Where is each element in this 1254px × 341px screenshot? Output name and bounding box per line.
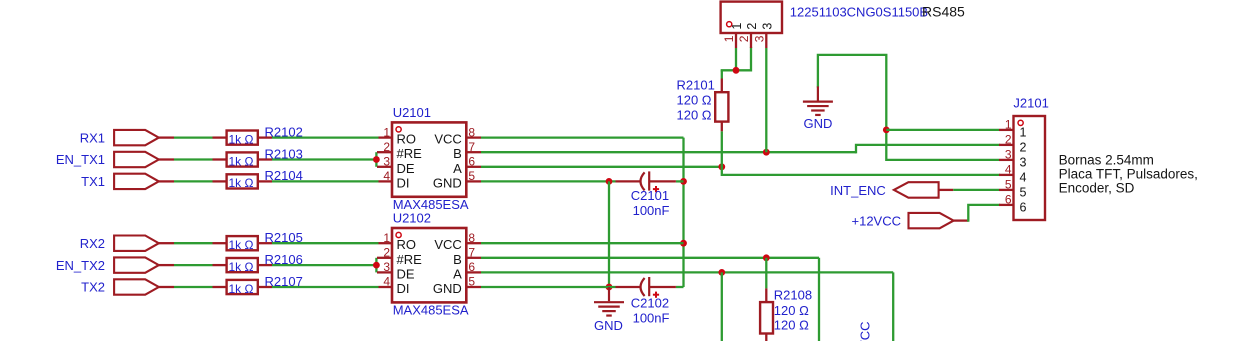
value label 100nF of C2102 [633,311,670,326]
wire B U2101 pin7 [481,151,856,153]
U2101 pin numbers [383,125,475,183]
net label EN_TX1 [56,152,105,167]
net label GND top [804,116,833,131]
designator label C2102 [631,296,669,311]
svg-text:R2102: R2102 [265,124,303,139]
wire A2 U2102 pin6 [481,271,893,273]
port flag EN_TX2 [114,257,174,272]
svg-text:2: 2 [745,23,759,30]
svg-text:7: 7 [468,246,475,260]
J2101 pin numbers 1-6 [1005,118,1012,207]
connector J2101 body [1014,116,1046,220]
ground symbol top [803,86,833,115]
resistor R2107 [213,280,273,294]
svg-text:2: 2 [1005,133,1012,147]
svg-text:3: 3 [1005,148,1012,162]
wire GND U2101 pin5 [481,180,616,182]
designator label R2103 [265,146,303,161]
wire connector pin3 down to B [765,48,767,152]
wire #RE-DE tie bracket U2101 [376,152,392,167]
net label RX1 [80,130,105,145]
junction VCC at C2101 [680,178,687,185]
wire EN_TX2 flag to resistor [174,264,213,266]
wire GND U2102 pin5 [481,286,616,288]
junction B2 at R2108 [763,254,770,261]
wire VCC U2102 pin8 [481,242,684,244]
svg-text:R2107: R2107 [265,274,303,289]
wire B2 drop down [818,258,820,341]
capacitor C2102 polarized [616,277,676,298]
svg-text:EN_TX2: EN_TX2 [56,258,105,273]
net label +12VCC [852,214,902,229]
svg-text:GND: GND [594,318,623,333]
resistor R2103 [213,152,273,166]
svg-text:GND: GND [804,116,833,131]
net label EN_TX2 [56,258,105,273]
junction GND at C2101 left [606,178,613,185]
connector 12251103CNG0S1150B body [721,2,782,33]
svg-text:R2101: R2101 [677,77,715,92]
junction GND at C2102 left [606,284,613,291]
svg-text:DI: DI [397,281,410,296]
svg-text:R2105: R2105 [265,230,303,245]
svg-text:B: B [453,252,462,267]
wire GND net top [818,55,886,160]
wire A2 branch drop [721,272,723,341]
value label 1k for R2107 [229,282,254,296]
svg-text:+12VCC: +12VCC [852,214,902,229]
wire A U2101 pin6 [481,166,722,168]
svg-text:DE: DE [397,266,415,281]
svg-text:5: 5 [468,169,475,183]
svg-text:#RE: #RE [397,252,423,267]
svg-text:VCC: VCC [434,132,461,147]
svg-text:120 Ω: 120 Ω [677,92,712,107]
svg-text:1k Ω: 1k Ω [229,176,254,190]
net label TX1 [81,174,105,189]
svg-text:3: 3 [761,23,775,30]
wire TX1 flag to resistor [174,180,213,182]
designator label U2101 [393,105,431,120]
port flag TX2 [114,279,174,294]
svg-text:6: 6 [468,260,475,274]
junction VCC at U2102 pin8 [680,240,687,247]
wire GND vertical C2101 to C2102 [608,181,610,287]
wire C2101 right to VCC vertical [676,180,684,182]
resistor R2105 [213,236,273,250]
svg-text:1k Ω: 1k Ω [229,132,254,146]
junction EN_TX2 at bracket [373,262,380,269]
designator label R2105 [265,230,303,245]
svg-text:1: 1 [730,23,744,30]
wire EN_TX2 resistor to U2102 pin [272,264,376,266]
connector pin names 1 2 3 [730,23,774,30]
ground symbol bottom [594,287,624,316]
designator label J2101 [1013,96,1048,111]
port flag INT_ENC [894,182,953,198]
svg-text:2: 2 [383,246,390,260]
junction A2 branch [718,269,725,276]
junction EN_TX1 at bracket [373,156,380,163]
svg-text:Encoder, SD: Encoder, SD [1059,181,1135,196]
value label 1k for R2106 [229,260,254,274]
junction B at connector pin3 [763,149,770,156]
svg-text:GND: GND [433,175,462,190]
svg-text:C2102: C2102 [631,296,669,311]
wire B step up to J2101 pin2 [856,145,999,152]
value label 1k for R2103 [229,154,254,168]
svg-text:120 Ω: 120 Ω [774,303,809,318]
U2101 pin stubs [379,138,482,182]
svg-text:120 Ω: 120 Ω [677,108,712,123]
junction A at R2101 [718,163,725,170]
resistor R2102 [213,131,273,145]
wire TX2 flag to resistor [174,286,213,288]
svg-text:INT_ENC: INT_ENC [830,183,886,198]
svg-text:6: 6 [468,155,475,169]
wire A down to J2101 pin4 [722,167,999,175]
wire C2102 right to VCC vertical [676,286,684,288]
svg-text:1k Ω: 1k Ω [229,238,254,252]
svg-text:6: 6 [1020,200,1027,214]
label RS485 [922,3,965,19]
wire EN_TX1 resistor to U2101 pin [272,158,376,160]
svg-text:120 Ω: 120 Ω [774,317,809,332]
port flag TX1 [114,174,174,189]
port flag EN_TX1 [114,152,174,167]
svg-text:R2103: R2103 [265,146,303,161]
svg-text:TX1: TX1 [81,174,105,189]
svg-text:1k Ω: 1k Ω [229,260,254,274]
part label MAX485ESA of U2101 [393,197,469,212]
junction GND at J2101 pin1 branch [883,126,890,133]
svg-text:MAX485ESA: MAX485ESA [393,303,469,318]
wire RX2 resistor to U2102 pin [272,242,379,244]
value label 1k for R2102 [229,132,254,146]
svg-text:5: 5 [468,275,475,289]
wire VCC U2101 pin8 [481,136,684,138]
port flag RX2 [114,236,174,251]
svg-text:7: 7 [468,140,475,154]
svg-text:Bornas 2.54mm: Bornas 2.54mm [1059,153,1154,168]
wire connector pin1 down [735,48,737,70]
svg-text:J2101: J2101 [1013,96,1048,111]
svg-text:RX1: RX1 [80,130,105,145]
resistor R2104 [213,174,273,188]
svg-text:R2108: R2108 [774,288,812,303]
U2102 pin names RO #RE DE DI VCC B A GND [397,237,463,296]
value label 1k for R2105 [229,238,254,252]
wire R2101 bottom to A [721,131,723,167]
wire VCC vertical [682,138,684,287]
svg-text:12251103CNG0S1150B: 12251103CNG0S1150B [790,4,928,19]
svg-text:+12VCC: +12VCC [858,322,873,341]
port flag RX1 [114,130,174,145]
svg-text:1: 1 [383,231,390,245]
U2102 pin numbers [383,231,475,289]
resistor R2108 [760,288,773,341]
svg-text:R2106: R2106 [265,252,303,267]
J2101 pin stubs [999,130,1014,205]
svg-text:3: 3 [383,260,390,274]
connector pin numbers 1 2 3 [722,35,766,42]
value label 1k for R2104 [229,176,254,190]
resistor R2101 [715,79,728,132]
junction connector pins 1-2 [733,67,740,74]
svg-text:1: 1 [722,35,736,42]
svg-text:B: B [453,146,462,161]
wire B2 U2102 pin7 [481,257,819,259]
wire GND to J2101 pin1 [886,129,999,131]
svg-text:5: 5 [1020,185,1027,199]
svg-text:3: 3 [383,155,390,169]
port flag +12VCC [909,213,969,228]
connector pin stubs 1 2 3 [736,33,766,48]
resistor R2106 [213,258,273,272]
svg-text:8: 8 [468,231,475,245]
value label 120 ohm of R2101 [677,92,712,122]
svg-text:100nF: 100nF [633,203,670,218]
svg-text:U2102: U2102 [393,211,431,226]
svg-text:1k Ω: 1k Ω [229,154,254,168]
wire TX1 resistor to U2101 pin [272,180,379,182]
U2102 pin stubs [379,243,482,287]
wire R2108 top [765,258,767,289]
svg-text:Placa TFT, Pulsadores,: Placa TFT, Pulsadores, [1059,167,1198,182]
part label MAX485ESA of U2102 [393,303,469,318]
designator label C2101 [631,188,669,203]
svg-text:2: 2 [383,140,390,154]
designator label R2108 [774,288,812,303]
value label 120 ohm of R2108 [774,303,809,333]
svg-text:DE: DE [397,161,415,176]
svg-text:EN_TX1: EN_TX1 [56,152,105,167]
wire INT_ENC to J2101 pin5 [953,189,999,191]
wire +12VCC to J2101 pin6 [968,205,999,221]
svg-text:RO: RO [397,132,417,147]
part label 12251103CNG0S1150B [790,4,928,19]
wire A2 drop down [892,272,894,341]
designator label R2106 [265,252,303,267]
wire junction to R2101 [721,70,723,78]
svg-text:1k Ω: 1k Ω [229,282,254,296]
wire GND to J2101 pin3 [886,159,999,161]
svg-text:1: 1 [1005,118,1012,132]
net label INT_ENC [830,183,886,198]
svg-text:A: A [453,161,462,176]
value label 100nF of C2101 [633,203,670,218]
designator label U2102 [393,211,431,226]
transceiver IC U2101 MAX485ESA body [392,122,466,196]
svg-text:1: 1 [383,125,390,139]
wire TX2 resistor to U2102 pin [272,286,379,288]
label Bornas note [1059,153,1198,196]
net label +12VCC rotated [858,322,873,341]
svg-text:U2101: U2101 [393,105,431,120]
svg-text:DI: DI [397,175,410,190]
J2101 pin names 1-6 [1020,125,1027,214]
wire EN_TX1 flag to resistor [174,158,213,160]
wire connector pin2 down [722,48,751,70]
svg-text:A: A [453,266,462,281]
designator label R2107 [265,274,303,289]
svg-text:6: 6 [1005,193,1012,207]
svg-text:3: 3 [1020,155,1027,169]
U2101 pin names RO #RE DE DI VCC B A GND [397,132,463,191]
svg-text:4: 4 [383,169,390,183]
svg-text:TX2: TX2 [81,280,105,295]
svg-text:2: 2 [1020,140,1027,154]
svg-text:RX2: RX2 [80,236,105,251]
svg-text:#RE: #RE [397,146,423,161]
svg-text:4: 4 [383,275,390,289]
svg-text:2: 2 [737,35,751,42]
designator label R2104 [265,168,303,183]
designator label R2101 [677,77,715,92]
svg-text:GND: GND [433,281,462,296]
designator label R2102 [265,124,303,139]
svg-text:R2104: R2104 [265,168,303,183]
wire RX1 resistor to U2101 pin [272,136,379,138]
svg-text:C2101: C2101 [631,188,669,203]
wire RX1 flag to resistor [174,136,213,138]
net label GND bottom [594,318,623,333]
svg-text:100nF: 100nF [633,311,670,326]
svg-text:3: 3 [753,35,767,42]
svg-text:1: 1 [1020,125,1027,139]
svg-text:5: 5 [1005,178,1012,192]
wire RX2 flag to resistor [174,242,213,244]
svg-text:RO: RO [397,237,417,252]
svg-text:VCC: VCC [434,237,461,252]
svg-text:4: 4 [1020,170,1027,184]
svg-text:8: 8 [468,125,475,139]
net label RX2 [80,236,105,251]
svg-text:4: 4 [1005,163,1012,177]
net label TX2 [81,280,105,295]
svg-text:RS485: RS485 [922,3,965,19]
wire #RE-DE tie bracket U2102 [376,258,392,273]
transceiver IC U2102 MAX485ESA body [392,228,466,302]
capacitor C2101 polarized [616,171,676,192]
